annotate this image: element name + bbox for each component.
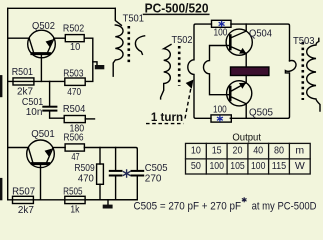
asterisk between C505 capacitors [124,170,130,177]
left edge artifact bar top [0,75,2,97]
resistor R503 [63,67,85,98]
transformer T503 core [301,42,304,100]
resistor R506 [64,131,85,163]
svg-text:R507: R507 [12,185,35,197]
svg-text:W: W [295,160,305,172]
resistor R504 [63,103,95,135]
T502 secondary 1 turn loop (left side of PA loop) [188,24,212,118]
svg-text:270: 270 [145,173,162,185]
wire: base coupling line [204,46,230,95]
svg-text:m: m [295,145,304,157]
transformer T501 secondary [135,36,144,55]
transistor Q502 [28,30,56,81]
resistor 100* top [212,20,232,38]
transformer T501 core [128,26,131,65]
svg-text:Q505: Q505 [249,107,273,119]
resistor R507 [12,185,35,216]
transistor Q505 [227,76,252,119]
wire: C505b bottom lead [136,176,138,200]
svg-text:470: 470 [67,86,81,98]
transistor Q501 [27,140,55,200]
svg-text:Q504: Q504 [249,28,272,40]
1 turn annotation [146,80,193,124]
Output table [186,132,311,174]
svg-text:100: 100 [209,160,224,172]
wire: C505a top lead [115,148,117,171]
capacitor C505a [110,171,122,176]
svg-text:100: 100 [214,28,228,39]
wire: R509 bottom lead [99,184,101,200]
svg-text:100: 100 [251,160,266,172]
svg-text:20: 20 [233,145,243,157]
svg-text:105: 105 [230,160,245,172]
wire: Q502 collector wire [8,37,30,39]
svg-text:Q502: Q502 [32,20,55,32]
transformer T502 core [178,46,181,86]
title PC-500/520 [144,2,209,16]
svg-text:R502: R502 [63,22,84,34]
wire: Q501 collector wire [8,147,29,149]
svg-text:Q501: Q501 [31,128,55,140]
caption superscript asterisk [242,198,246,202]
svg-text:Output: Output [232,132,261,144]
svg-text:PC-500/520: PC-500/520 [145,2,209,16]
wire: Q501 emitter to R506 [53,147,65,149]
capacitor C505b [132,171,144,176]
svg-text:10: 10 [70,41,80,53]
wire: Q502 emitter to R502 [54,37,65,39]
tap symbol on T501 [93,62,105,70]
svg-text:1k: 1k [70,204,80,215]
svg-text:470: 470 [78,172,94,184]
svg-text:T501: T501 [123,13,145,25]
wire: top rail [8,7,116,9]
wire: left supply rail [7,8,9,200]
resistor R501 [12,66,34,97]
transformer T502 primary [161,45,171,99]
svg-text:40: 40 [253,145,263,157]
wire: bottom rail [8,199,138,201]
transistor Q504 [226,24,252,67]
svg-text:10: 10 [191,145,201,157]
wire: R509 top lead [99,148,101,165]
svg-text:1 turn: 1 turn [151,112,183,124]
resistor R509 [74,162,103,185]
svg-text:100: 100 [213,104,227,115]
ferrite bar between emitters [231,67,269,76]
svg-text:15: 15 [212,145,222,157]
svg-text:10n: 10n [26,106,43,118]
wire: PA bottom rail [230,117,246,119]
svg-text:at my PC-500D: at my PC-500D [252,200,317,212]
wire: tank top rail [84,148,137,171]
capacitor C501 [22,81,64,118]
resistor R505 [63,185,137,215]
svg-text:R505: R505 [63,185,83,197]
caption C505 note [134,200,317,212]
svg-text:R503: R503 [63,67,83,79]
svg-text:R501: R501 [12,66,33,78]
svg-text:115: 115 [272,160,287,172]
svg-text:80: 80 [274,145,284,157]
T503 primary single-turn loop on right side [246,61,296,119]
svg-text:R506: R506 [64,131,84,143]
wire: PA top rail [231,24,290,61]
left edge artifact bar bottom [0,178,2,200]
svg-text:C505 = 270 pF + 270 pF: C505 = 270 pF + 270 pF [134,200,242,212]
resistor R502 [63,22,84,53]
transformer T501 primary [113,8,123,76]
wire: C505a bottom lead [115,176,117,200]
svg-text:2k7: 2k7 [18,204,34,215]
svg-text:R504: R504 [63,103,86,115]
resistor 100* bottom [211,104,231,122]
svg-text:T503: T503 [293,35,315,47]
transformer T503 secondary [307,38,320,111]
svg-text:T502: T502 [172,34,193,46]
ground [103,200,113,209]
wire: mid rail (R501/R503 row) [8,80,65,82]
wire: R502/R503 right connector [84,38,93,81]
svg-text:50: 50 [191,160,201,172]
